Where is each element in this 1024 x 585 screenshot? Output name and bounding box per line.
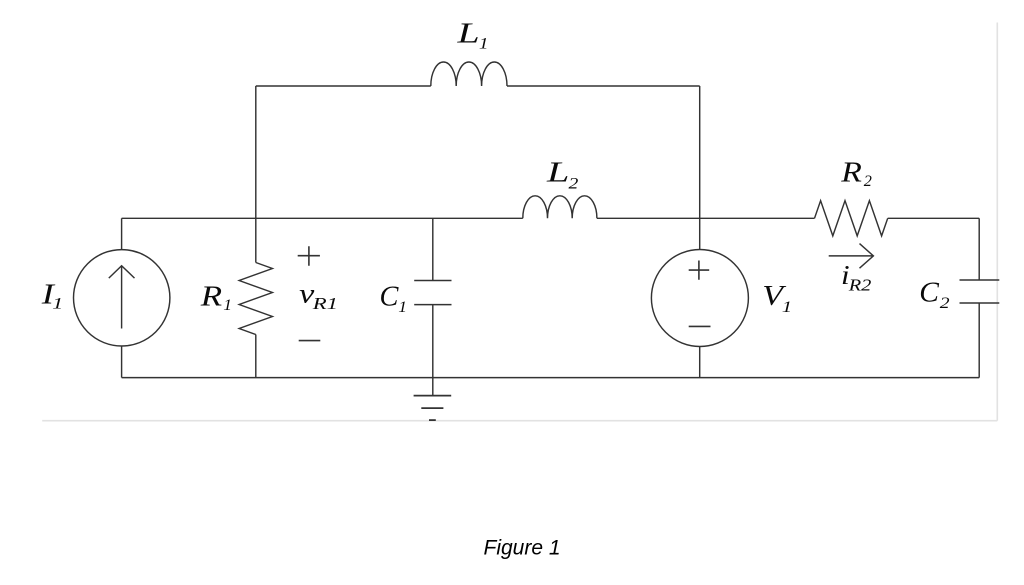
resistor R2 zigzag <box>815 201 888 236</box>
svg-text:1: 1 <box>782 298 792 316</box>
svg-text:1: 1 <box>479 34 489 52</box>
ground bar 1 <box>414 395 452 397</box>
R1 plus sign <box>298 246 320 265</box>
inductor L2 humps <box>523 196 597 219</box>
capacitor C1 bottom plate <box>414 304 451 306</box>
wire C1 vertical below to ground <box>432 305 434 396</box>
inductor L1 humps <box>431 62 507 86</box>
label vR1 <box>299 279 315 309</box>
label I1 <box>41 279 56 311</box>
label V1 <box>762 279 787 311</box>
resistor R1 zigzag <box>239 263 272 335</box>
I1 arrow stem <box>121 266 123 329</box>
wire left branch vertical below I1 <box>121 346 123 378</box>
wire V1 vertical below <box>699 346 701 378</box>
svg-text:Figure 1: Figure 1 <box>484 537 561 560</box>
wire right vertical from top wire to V1 <box>699 86 701 250</box>
wire middle row right segment <box>888 217 980 219</box>
ground bar 3 <box>429 419 436 421</box>
svg-text:R2: R2 <box>848 276 872 295</box>
wire top-right horizontal segment <box>507 85 700 87</box>
capacitor C2 bottom plate <box>960 302 1000 304</box>
R1 minus sign <box>299 340 321 342</box>
svg-text:2: 2 <box>940 294 950 312</box>
wire C1 vertical above <box>432 218 434 280</box>
voltage source V1 circle <box>651 250 748 347</box>
wire middle row center segment <box>597 217 815 219</box>
svg-text:R1: R1 <box>312 294 338 313</box>
svg-text:C: C <box>380 280 400 312</box>
label R2 <box>840 156 862 188</box>
wire R1 branch vertical below zigzag <box>255 335 257 378</box>
svg-text:2: 2 <box>569 174 579 192</box>
svg-text:L: L <box>456 17 479 49</box>
label L1 <box>456 17 479 49</box>
wire C2 vertical below <box>978 303 980 378</box>
ground bar 2 <box>421 407 443 409</box>
svg-text:1: 1 <box>398 298 407 316</box>
label R1 <box>200 279 223 311</box>
wire C2 vertical above <box>978 218 980 280</box>
page border faint line horizontal <box>42 420 997 422</box>
svg-text:2: 2 <box>864 173 872 190</box>
current source I1 circle <box>74 250 170 346</box>
svg-text:R: R <box>200 279 223 311</box>
svg-text:R: R <box>840 156 862 188</box>
wire middle row left segment <box>122 217 523 219</box>
V1 minus sign <box>689 325 711 327</box>
iR2 arrow <box>829 244 874 269</box>
svg-text:1: 1 <box>52 296 63 313</box>
wire left vertical from top wire to R1 <box>255 86 257 263</box>
capacitor C2 top plate <box>960 279 1000 281</box>
wire left branch vertical above I1 <box>121 218 123 250</box>
wire top-left horizontal segment <box>256 85 431 87</box>
V1 plus sign <box>689 261 710 280</box>
label C2 <box>919 277 939 309</box>
svg-text:L: L <box>546 156 569 188</box>
label iR2 <box>841 261 850 291</box>
wire bottom horizontal <box>122 377 980 379</box>
svg-text:1: 1 <box>223 296 232 314</box>
label L2 <box>546 156 569 188</box>
capacitor C1 top plate <box>414 280 451 282</box>
page border faint line vertical <box>996 23 998 421</box>
svg-text:C: C <box>919 277 939 309</box>
label C1 <box>380 280 400 312</box>
I1 arrow head <box>109 266 135 278</box>
